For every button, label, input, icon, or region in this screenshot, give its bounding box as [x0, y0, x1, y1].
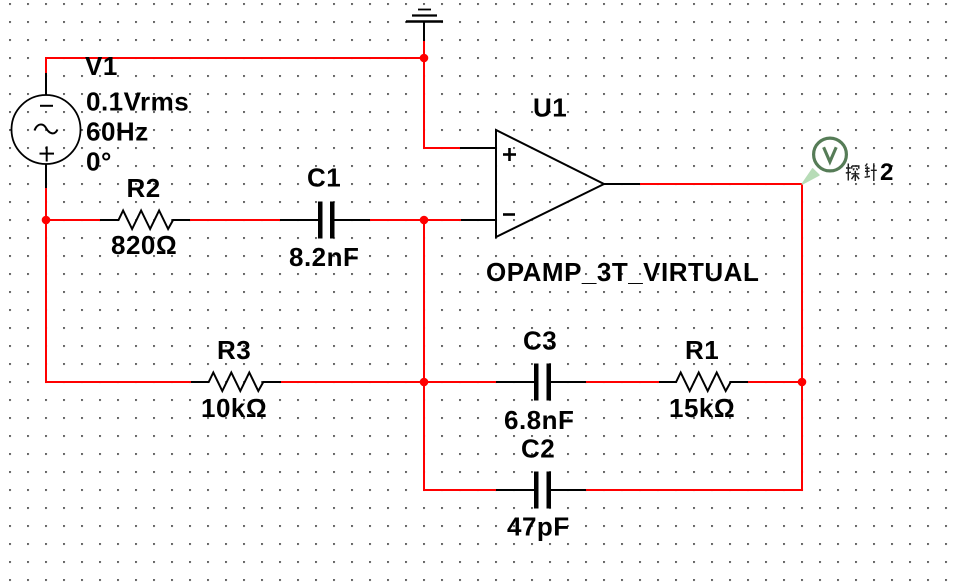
wire junction A down and right to R3: [46, 220, 191, 382]
junction opamp minus node: [420, 216, 429, 225]
op-amp U1: [460, 130, 640, 237]
svg-text:6.8nF: 6.8nF: [504, 405, 574, 435]
wire C1 to opamp minus junction: [370, 219, 461, 221]
junction output node: [798, 378, 807, 387]
wire C3 to R1: [586, 381, 659, 383]
label probe tan: [846, 164, 860, 182]
svg-text:R3: R3: [217, 335, 251, 365]
wire opamp output to probe corner down to output node: [640, 184, 802, 382]
svg-text:820Ω: 820Ω: [111, 230, 177, 260]
svg-text:8.2nF: 8.2nF: [289, 242, 359, 272]
capacitor C2: [496, 472, 586, 509]
wire net top: V1 top to ground junction: [46, 57, 424, 59]
wire V1 bottom to junction A: [45, 188, 47, 220]
svg-text:C3: C3: [523, 326, 557, 356]
svg-text:0°: 0°: [86, 147, 112, 177]
wire R2 to C1: [190, 219, 280, 221]
svg-text:47pF: 47pF: [507, 512, 570, 542]
resistor R1: [659, 373, 748, 392]
label probe zhen: [865, 163, 877, 181]
svg-text:60Hz: 60Hz: [86, 117, 149, 147]
svg-text:10kΩ: 10kΩ: [201, 393, 267, 423]
svg-text:C1: C1: [307, 163, 341, 193]
svg-text:R1: R1: [685, 335, 719, 365]
probe V circle: [814, 138, 847, 171]
svg-text:C2: C2: [521, 434, 555, 464]
wire junction A to R2: [46, 219, 100, 221]
svg-text:U1: U1: [533, 93, 567, 123]
svg-text:0.1Vrms: 0.1Vrms: [86, 87, 189, 117]
svg-text:V1: V1: [85, 51, 118, 81]
junction node A: [42, 216, 51, 225]
resistor R3: [191, 373, 281, 392]
capacitor C1: [280, 202, 370, 239]
svg-text:R2: R2: [127, 173, 161, 203]
junction at ground node: [420, 54, 429, 63]
capacitor C3: [496, 364, 586, 401]
resistor R2: [100, 211, 190, 230]
ground: [406, 10, 443, 42]
probe tail: [802, 169, 819, 184]
wire ground junction down to opamp plus corner: [424, 40, 460, 148]
svg-text:2: 2: [880, 159, 893, 186]
source V1: [12, 73, 81, 188]
wire minus junction down through node B to C2 corner: [424, 220, 496, 490]
wire R1 to output node: [748, 381, 802, 383]
junction node B: [420, 378, 429, 387]
wire output node down and left to C2: [586, 382, 802, 490]
wire R3 to C3 through node B: [281, 381, 496, 383]
svg-text:15kΩ: 15kΩ: [669, 393, 735, 423]
wire V1 top vertical: [45, 57, 47, 73]
svg-text:OPAMP_3T_VIRTUAL: OPAMP_3T_VIRTUAL: [486, 257, 759, 287]
